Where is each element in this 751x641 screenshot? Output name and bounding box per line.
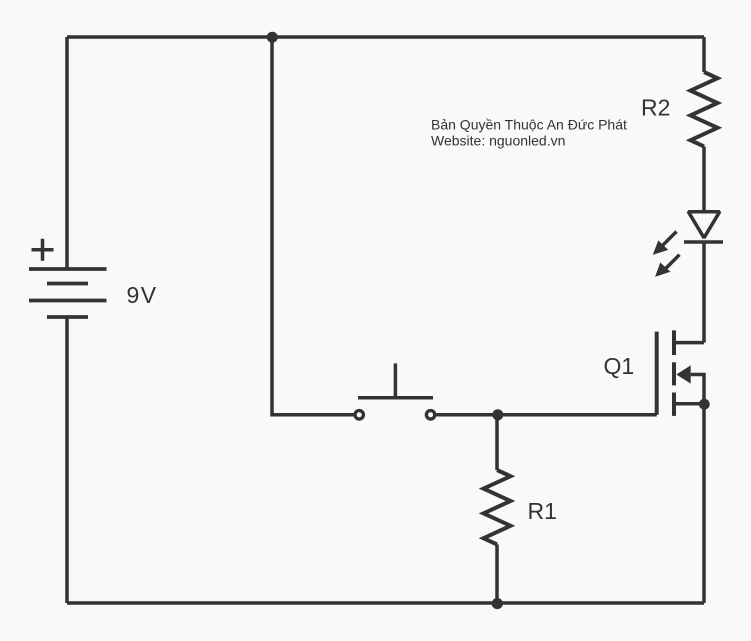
LED D1 light arrow 1 head bbox=[653, 240, 669, 255]
svg-text:R2: R2 bbox=[641, 95, 670, 121]
svg-text:Website: nguonled.vn: Website: nguonled.vn bbox=[431, 133, 565, 149]
transistor Q1 body lead bbox=[691, 375, 704, 404]
wire right rail top into R2 bbox=[702, 37, 706, 72]
transistor Q1 channel dash body bbox=[672, 362, 676, 385]
LED D1 cathode bar bbox=[684, 240, 723, 244]
node junction source bbox=[699, 399, 710, 410]
svg-text:Bản Quyền Thuộc An Đức Phát: Bản Quyền Thuộc An Đức Phát bbox=[431, 116, 627, 132]
LED D1 light arrow 1 shaft bbox=[663, 232, 677, 246]
resistor R2 zigzag bbox=[691, 72, 718, 146]
battery BT1 plus sign bbox=[32, 239, 54, 261]
wire LED to Q1 drain bbox=[702, 242, 706, 342]
wire left rail battery + up bbox=[65, 37, 69, 269]
wire R1 bottom lead bbox=[495, 544, 499, 603]
svg-text:R1: R1 bbox=[528, 498, 557, 524]
switch S1 actuator stem bbox=[394, 363, 398, 397]
battery BT1 plate long top bbox=[29, 267, 107, 271]
battery BT1 plate long bbox=[29, 299, 107, 303]
wire switch right to gate bbox=[437, 413, 657, 417]
battery BT1 plate short bottom bbox=[47, 315, 88, 319]
wire switch drop from top node bbox=[272, 37, 354, 415]
transistor Q1 source lead bbox=[674, 402, 704, 406]
battery BT1 plate short bbox=[47, 282, 88, 286]
svg-text:Q1: Q1 bbox=[604, 353, 635, 379]
switch S1 terminal circle right bbox=[426, 411, 434, 419]
switch S1 terminal circle left bbox=[355, 411, 363, 419]
switch S1 actuator bar bbox=[358, 396, 433, 400]
transistor Q1 channel dash source bbox=[672, 393, 676, 416]
node junction top bbox=[267, 32, 278, 43]
LED D1 light arrow 2 shaft bbox=[666, 255, 680, 269]
node junction gate/R1 bbox=[492, 409, 503, 420]
wire right rail bottom bbox=[702, 404, 706, 603]
LED D1 light arrow 2 head bbox=[655, 263, 670, 277]
LED D1 triangle bbox=[688, 212, 719, 238]
transistor Q1 channel dash drain bbox=[672, 330, 676, 355]
resistor R1 zigzag bbox=[484, 470, 511, 544]
wire battery - down bbox=[65, 317, 69, 603]
node junction bottom bbox=[492, 598, 503, 609]
wire bottom rail bbox=[67, 601, 704, 605]
transistor Q1 drain lead bbox=[674, 341, 704, 345]
wire R2 to LED bbox=[702, 146, 706, 211]
wire R1 top lead bbox=[495, 415, 499, 470]
wire top rail from battery + to R2 bbox=[67, 35, 704, 39]
transistor Q1 gate plate bbox=[655, 332, 659, 415]
svg-text:9V: 9V bbox=[127, 282, 158, 308]
transistor Q1 body diode arrow head bbox=[676, 365, 690, 383]
